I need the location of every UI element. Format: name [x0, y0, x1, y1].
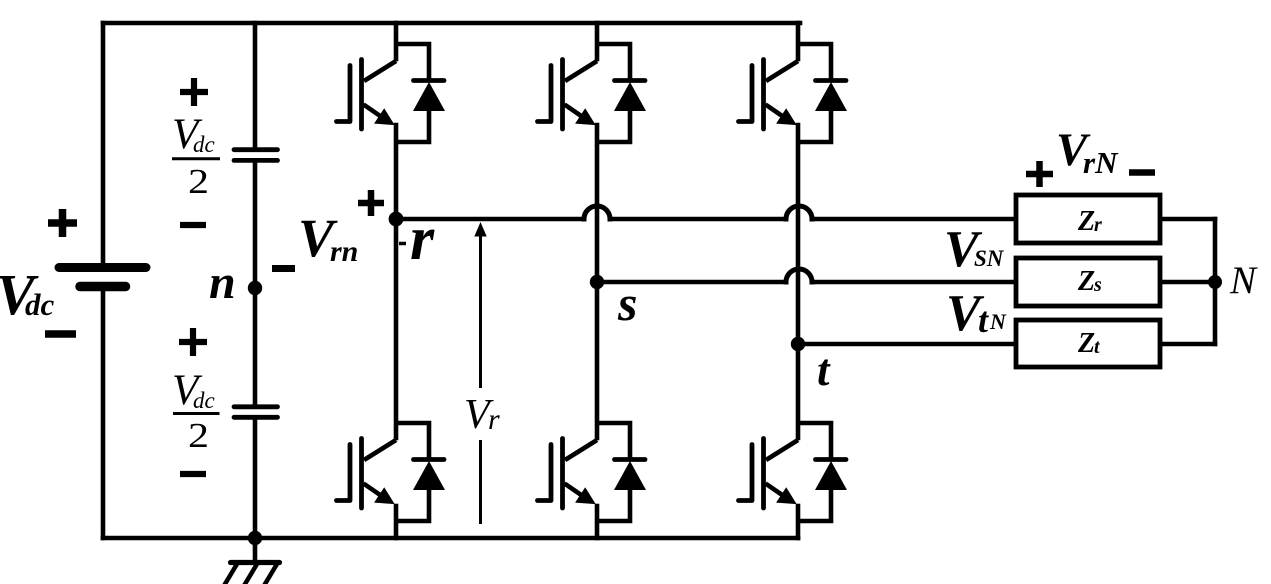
IGBT Q1 top of leg r	[337, 60, 397, 130]
svg-text:2: 2	[188, 162, 209, 201]
node N junction dot	[1208, 275, 1222, 289]
C1 minus sign	[180, 222, 206, 228]
C2 plus sign	[179, 328, 207, 356]
Vrn minus sign	[272, 265, 295, 272]
label Zs	[1077, 266, 1102, 297]
battery minus sign	[45, 330, 76, 338]
wire Zr to node N	[1160, 219, 1215, 344]
svg-text:s: s	[1093, 274, 1102, 296]
diode D5 antiparallel Q5	[798, 44, 847, 142]
diode D6 antiparallel Q6	[798, 423, 847, 521]
label VsN	[944, 221, 1005, 278]
svg-text:dc: dc	[193, 132, 215, 157]
wire leg s middle	[595, 125, 600, 438]
label Vdc battery	[0, 262, 55, 327]
wire leg s collector	[595, 23, 600, 59]
Vrn plus sign	[358, 190, 384, 216]
svg-text:dc: dc	[25, 287, 55, 322]
svg-text:r: r	[410, 205, 435, 273]
label Vdc/2 lower	[172, 367, 220, 455]
wire top DC rail	[103, 21, 800, 26]
wire capacitor branch lower	[253, 419, 258, 538]
node t junction dot	[791, 337, 805, 351]
wire bottom DC rail	[103, 536, 798, 541]
node n junction dot	[248, 281, 262, 295]
svg-text:2: 2	[188, 416, 209, 455]
C2 minus sign	[180, 471, 206, 477]
battery plus sign	[48, 209, 77, 237]
svg-text:rN: rN	[1083, 145, 1119, 180]
label Zt	[1077, 328, 1101, 359]
IGBT Q2 bottom of leg r	[337, 439, 397, 509]
svg-text:s: s	[617, 275, 637, 331]
svg-text:n: n	[209, 256, 236, 309]
svg-text:t: t	[978, 300, 989, 340]
VrN minus sign	[1129, 169, 1155, 176]
capacitor C1 plates	[234, 150, 278, 161]
load Zs box	[1016, 258, 1160, 306]
wire battery branch upper	[101, 23, 106, 263]
svg-text:dc: dc	[193, 388, 215, 413]
svg-text:N: N	[989, 309, 1007, 334]
wire leg t collector	[796, 23, 801, 59]
IGBT Q3 top of leg s	[538, 60, 598, 130]
wire hop s over leg t	[786, 269, 812, 282]
svg-text:Z: Z	[1077, 206, 1095, 237]
battery Vdc long plate	[59, 263, 146, 272]
svg-text:rn: rn	[330, 235, 358, 268]
label VrN	[1056, 124, 1119, 180]
wire leg t emitter bottom	[796, 506, 801, 538]
wire leg t middle	[796, 125, 801, 438]
IGBT Q5 top of leg t	[739, 60, 799, 130]
svg-text:t: t	[817, 345, 831, 395]
wire leg r middle	[394, 125, 399, 438]
svg-text:Z: Z	[1077, 266, 1095, 297]
wire phase t output	[798, 342, 1016, 347]
label Vrn	[298, 208, 358, 268]
label Vr	[464, 392, 500, 438]
IGBT Q4 bottom of leg s	[538, 439, 598, 509]
wire Zt to node N	[1160, 342, 1215, 347]
diode D1 antiparallel Q1	[396, 44, 445, 142]
load Zt box	[1016, 320, 1160, 367]
wire leg r collector	[394, 23, 399, 59]
svg-text:Z: Z	[1077, 328, 1095, 359]
wire leg s emitter bottom	[595, 506, 600, 538]
IGBT Q6 bottom of leg t	[739, 439, 799, 509]
wire Zs to node N	[1160, 280, 1215, 285]
label Vdc/2 upper	[172, 111, 220, 201]
wire battery branch lower	[101, 290, 106, 538]
diode D2 antiparallel Q2	[396, 423, 445, 521]
wire phase r output	[396, 217, 1016, 222]
load Zr box	[1016, 195, 1160, 243]
wire hop r over leg s	[584, 206, 610, 219]
wire leg r emitter bottom	[394, 506, 399, 538]
svg-text:r: r	[488, 403, 500, 436]
C1 plus sign	[180, 78, 208, 106]
svg-text:SN: SN	[974, 246, 1005, 271]
small dash at node r	[399, 242, 406, 246]
capacitor C2 plates	[234, 407, 278, 418]
ground symbol	[225, 538, 280, 584]
wire hop r over leg t	[786, 206, 812, 219]
node ground junction dot	[248, 531, 262, 545]
battery Vdc short plate	[80, 282, 126, 292]
wire capacitor branch middle	[253, 162, 258, 404]
label VtN	[946, 285, 1007, 342]
Vr measurement arrow	[479, 235, 482, 524]
wire capacitor branch upper	[253, 23, 258, 146]
svg-text:r: r	[1094, 214, 1102, 236]
wire phase s output	[597, 280, 1016, 285]
VrN plus sign	[1026, 161, 1053, 187]
svg-text:N: N	[1229, 259, 1258, 302]
node s junction dot	[590, 275, 604, 289]
diode D4 antiparallel Q4	[597, 423, 646, 521]
label Zr	[1077, 206, 1102, 237]
node r junction dot	[389, 212, 404, 227]
diode D3 antiparallel Q3	[597, 44, 646, 142]
